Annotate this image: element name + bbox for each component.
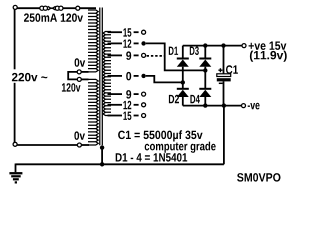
node C1 positive junction on +ve rail — [221, 43, 225, 47]
wire top from live terminal to fuse F1 — [17, 7, 40, 9]
wire D1 cathode to +ve rail — [182, 46, 184, 59]
node AC2 junction (D3 anode / D4 cathode / 12v) — [203, 68, 207, 72]
wire left vertical lower (220v live) — [14, 83, 16, 143]
wire secondary 15 tap at y116 lead — [108, 115, 123, 117]
wire 0v tap to bridge AC input (D1/D2 junction) — [146, 76, 182, 83]
label secondary tap 12 — [123, 39, 131, 47]
transformer T1 secondary winding (15-12-9-0-9-12-15 taps) — [103, 32, 111, 116]
node secondary tap 0 tap at y76 junction — [141, 74, 145, 78]
wire series link bracket 0v-120v — [68, 72, 77, 80]
label diode D1 — [169, 47, 178, 55]
wire secondary 9 tap at y55 dash to terminal — [134, 54, 139, 56]
label diode D3 — [190, 47, 199, 56]
wire optional 9v tap dashed link — [147, 55, 165, 57]
capacitor C1 negative plate — [217, 78, 231, 81]
wire +ve rail — [183, 45, 242, 47]
label mains 220v input — [12, 73, 47, 82]
wire secondary 15 tap at y32 dash to terminal — [134, 31, 139, 33]
wire secondary 12 tap at y43 dash to terminal — [134, 42, 139, 44]
label C1 polarity plus sign — [218, 68, 222, 72]
label C1 polarity minus sign — [219, 82, 223, 84]
label secondary tap 9 — [126, 90, 131, 99]
wire 120v tap to primary winding lower — [81, 78, 88, 80]
node +ve output terminal — [242, 44, 246, 48]
label author callsign SM0VPO — [237, 173, 280, 182]
wire secondary 12 tap at y43 lead — [108, 42, 123, 44]
wire bottom tap terminal to winding — [81, 144, 89, 146]
label primary 0v tap — [75, 58, 86, 67]
ground earth symbol — [9, 172, 22, 183]
transformer T1 primary winding upper section (120v-0v) — [88, 10, 98, 72]
wire D4 anode to -ve rail — [204, 97, 206, 106]
label C1 value — [118, 130, 203, 141]
wire secondary 9 tap at y94 dash to terminal — [134, 93, 139, 95]
label primary 120v tap — [62, 83, 81, 92]
node secondary tap 15 tap at y32 terminal — [142, 30, 146, 34]
node secondary tap 9 tap at y55 terminal — [142, 53, 146, 57]
wire AC1 junction to D2 cathode — [182, 82, 184, 88]
wire C1 positive lead — [223, 46, 225, 74]
node primary 120v top tap terminal — [76, 6, 80, 10]
diode D4 (1N5401, cathode up) — [199, 88, 211, 90]
wire left vertical upper (220v live) — [14, 9, 16, 69]
fuse F1 250mA holder (two circle pairs with arrows) — [40, 6, 63, 10]
node N mains neutral input terminal — [13, 142, 17, 146]
capacitor C1 55000uF electrolytic positive plate — [217, 74, 231, 77]
diode D3 (1N5401, cathode up) — [199, 58, 211, 60]
node primary 0v tap terminal — [77, 70, 81, 74]
wire secondary 9 tap at y94 lead — [108, 93, 123, 95]
label secondary tap 12 — [123, 101, 131, 109]
wire earth rail to ground symbol — [15, 164, 17, 173]
label capacitor C1 — [226, 65, 238, 74]
wire secondary 0 tap at y76 dash to terminal — [134, 75, 139, 77]
node -ve rail / D4 junction — [203, 103, 207, 107]
label diode D4 — [190, 95, 200, 103]
wire D3 anode to AC2 junction — [204, 67, 206, 71]
wire secondary 0 tap at y76 lead — [108, 75, 123, 77]
node +ve rail / D3 junction — [203, 43, 207, 47]
node AC1 junction (D1 anode / D2 cathode / 0v) — [181, 80, 185, 84]
wire secondary 12 tap at y105 lead — [108, 104, 123, 106]
node earth rail junction — [100, 162, 104, 166]
diode D2 (1N5401, cathode up) — [177, 88, 189, 90]
label +ve 15v output — [249, 42, 287, 50]
label diode types — [116, 153, 188, 162]
label secondary tap 0 — [126, 72, 131, 81]
node -ve output terminal — [242, 104, 246, 108]
node L mains live input terminal — [13, 5, 17, 9]
label actual voltage 11.9v — [250, 51, 287, 62]
wire fuse to primary tap terminal — [63, 7, 76, 9]
wire core to earth rail — [101, 148, 103, 165]
wire D3 cathode to +ve rail — [204, 46, 206, 59]
wire bottom neutral to primary 0v terminal — [17, 144, 77, 146]
transformer T1 primary winding lower section (120v-0v) — [88, 79, 98, 145]
node C1 negative junction on -ve rail — [222, 103, 226, 107]
wire -ve rail to earth rail — [223, 106, 225, 165]
node secondary tap 12 tap at y105 terminal — [142, 103, 146, 107]
label diode D2 — [169, 95, 179, 103]
wire D2 anode to -ve rail — [182, 97, 184, 106]
label secondary tap 15 — [123, 28, 131, 36]
label secondary tap 9 — [126, 51, 131, 60]
wire 0v tap to primary winding — [81, 71, 88, 73]
label primary bottom 0v — [74, 131, 85, 140]
wire secondary 9 tap at y55 lead — [108, 54, 123, 56]
wire secondary 15 tap at y116 dash to terminal — [134, 115, 139, 117]
wire AC2 junction to D4 cathode — [204, 70, 206, 88]
diode D1 (1N5401, cathode up) — [177, 58, 189, 60]
transformer T1 core (two lamination lines) — [99, 8, 101, 146]
node secondary tap 12 tap at y43 junction — [141, 41, 145, 45]
wire -ve rail — [183, 105, 242, 107]
wire into transformer primary top — [80, 7, 96, 9]
wire earth rail — [16, 163, 224, 165]
wire D1 anode to AC1 junction — [182, 67, 184, 83]
wire secondary 12 tap at y105 dash to terminal — [134, 104, 139, 106]
label -ve output — [248, 103, 260, 110]
node primary 120v tap terminal (lower) — [77, 77, 81, 81]
node secondary tap 9 tap at y94 terminal — [142, 92, 146, 96]
node primary 0v bottom tap terminal — [77, 143, 81, 147]
label fuse rating and primary 120v — [24, 13, 83, 22]
label secondary tap 15 — [123, 112, 131, 120]
wire C1 negative lead — [223, 81, 225, 105]
node core earth junction (top) — [100, 145, 104, 149]
wire 12v tap to bridge AC input (D3/D4 junction) — [146, 43, 205, 70]
node secondary tap 15 tap at y116 terminal — [142, 114, 146, 118]
label C1 type — [145, 142, 216, 153]
wire secondary 15 tap at y32 lead — [108, 31, 123, 33]
